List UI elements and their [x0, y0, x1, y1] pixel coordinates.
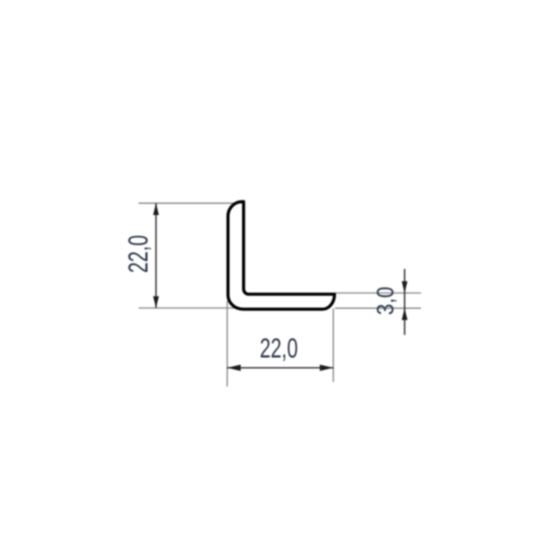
svg-text:3,0: 3,0: [372, 287, 399, 316]
svg-text:22,0: 22,0: [260, 333, 298, 364]
svg-text:22,0: 22,0: [123, 235, 154, 273]
